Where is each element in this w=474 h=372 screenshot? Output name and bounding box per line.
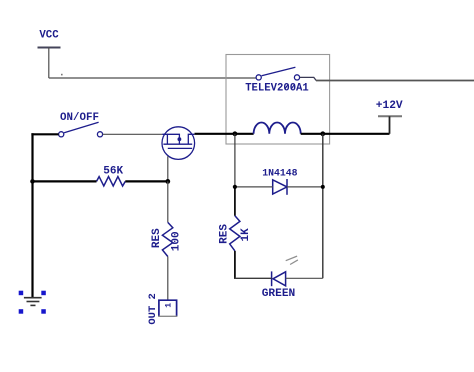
junction coil right — [320, 131, 325, 136]
wire right vertical — [322, 134, 324, 278]
power symbol VCC — [38, 29, 61, 78]
wire diode left — [235, 186, 273, 188]
wire left vertical to ground — [31, 133, 33, 297]
switch ON/OFF — [59, 112, 103, 137]
junction gate node — [165, 179, 170, 184]
wire diode right — [287, 186, 323, 188]
svg-text:1K: 1K — [240, 228, 252, 242]
svg-text:56K: 56K — [103, 166, 123, 178]
svg-text:ON/OFF: ON/OFF — [60, 112, 99, 124]
relay switch contact right — [294, 75, 299, 80]
wire node down to resistor R 100 — [167, 181, 169, 222]
wire left vertical (diode branch) — [234, 134, 236, 187]
relay switch blade — [262, 67, 296, 76]
contact right — [97, 132, 102, 137]
junction diode right — [321, 185, 325, 189]
junction coil left — [233, 131, 238, 136]
wire switch right to mosfet — [103, 133, 163, 135]
svg-text:RES: RES — [219, 224, 231, 244]
junction diode left — [233, 185, 237, 189]
triangle — [273, 272, 286, 286]
wire VCC to relay switch pin — [49, 77, 256, 79]
wire relay switch right with step — [300, 77, 316, 80]
svg-text:+12V: +12V — [376, 100, 403, 112]
port OUT 2 — [147, 293, 177, 325]
resistor RES 1K — [219, 216, 253, 251]
cathode bar — [271, 271, 273, 286]
wire 1K down to LED row — [234, 251, 236, 279]
wire LED right — [286, 277, 323, 279]
svg-text:GREEN: GREEN — [262, 288, 296, 300]
wire 56K to node — [125, 180, 168, 182]
junction left column — [30, 179, 35, 184]
top bracket to arrow — [167, 134, 179, 144]
wire resistor to port — [167, 257, 169, 301]
wire mosfet to coil (node row) — [195, 133, 254, 135]
mosfet Q1 — [162, 127, 195, 160]
relay body K1 — [226, 55, 330, 145]
svg-text:VCC: VCC — [39, 29, 59, 41]
svg-text:OUT 2: OUT 2 — [147, 293, 159, 325]
ground — [24, 298, 42, 306]
svg-text:1: 1 — [164, 303, 173, 308]
stray dot — [61, 74, 63, 76]
wire left to 56K — [33, 180, 97, 182]
drain plate — [162, 134, 167, 144]
wire switch left — [31, 133, 58, 135]
light rays — [286, 256, 297, 261]
blade — [64, 122, 99, 132]
wire junction to resistor 1K — [234, 187, 236, 216]
inductor relay coil — [254, 122, 301, 133]
svg-text:1N4148: 1N4148 — [262, 167, 297, 178]
diode 1N4148 — [262, 167, 297, 195]
resistor RES 100 — [151, 222, 182, 256]
wire to right edge — [316, 80, 474, 82]
svg-text:TELEV200A1: TELEV200A1 — [245, 83, 309, 95]
wire LED left — [234, 277, 272, 279]
wire coil to +12V stem — [301, 133, 390, 135]
wire mosfet gate down to node — [167, 156, 169, 181]
power symbol +12V — [376, 100, 403, 134]
selection handles — [19, 291, 46, 314]
channel line — [163, 143, 192, 145]
svg-text:RES: RES — [151, 228, 163, 248]
relay switch contact left — [256, 75, 261, 80]
arrow dot — [178, 137, 182, 141]
resistor 56K — [97, 166, 126, 186]
gate plate — [168, 147, 192, 149]
source plate — [188, 134, 194, 144]
LED D2 GREEN — [262, 256, 298, 300]
contact left — [59, 132, 64, 137]
